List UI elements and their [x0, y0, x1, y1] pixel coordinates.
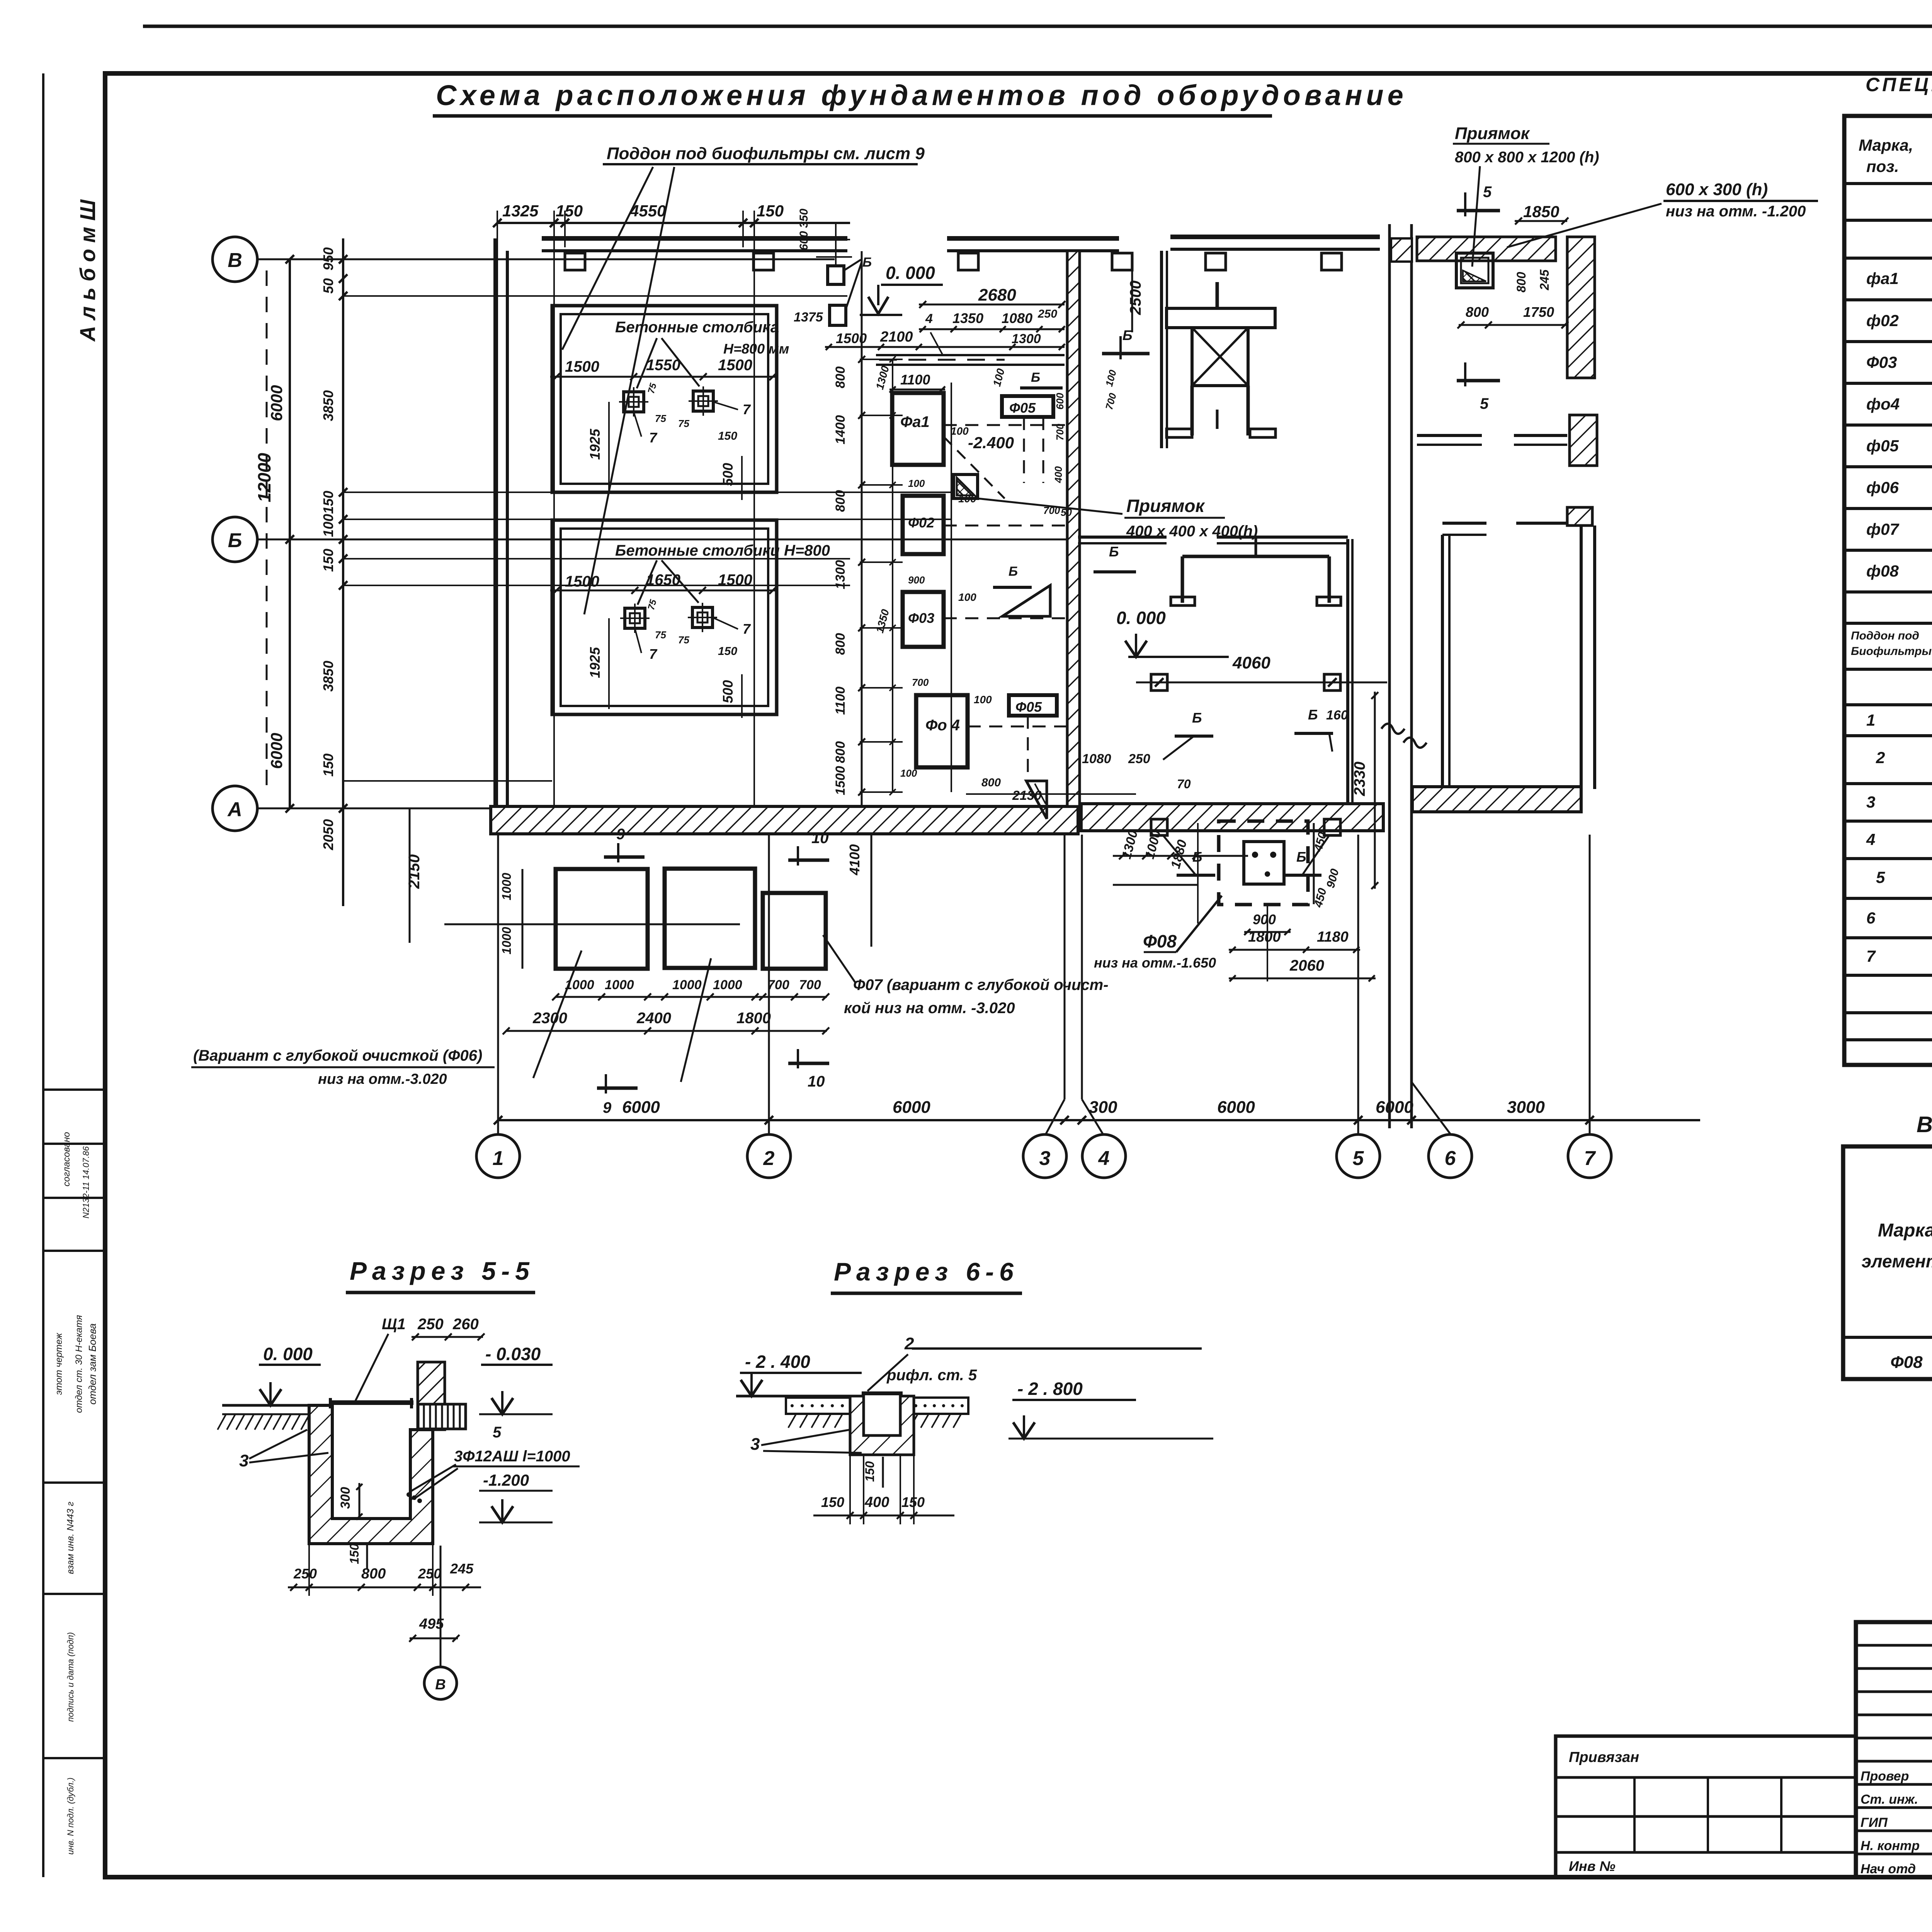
- svg-text:100: 100: [958, 591, 976, 603]
- svg-text:1180: 1180: [1317, 929, 1349, 945]
- svg-text:2300: 2300: [532, 1010, 567, 1027]
- svg-text:Бетонные столбика: Бетонные столбика: [615, 319, 779, 336]
- svg-text:75: 75: [678, 634, 689, 646]
- svg-text:(Вариант с глубокой очисткой (: (Вариант с глубокой очисткой (Ф06): [193, 1047, 482, 1064]
- svg-text:1400: 1400: [833, 415, 848, 444]
- svg-text:0: 0: [309, 1566, 317, 1582]
- svg-text:1925: 1925: [587, 647, 603, 678]
- svg-text:1: 1: [493, 1147, 504, 1170]
- svg-text:В: В: [228, 249, 242, 272]
- svg-text:Б: Б: [1122, 327, 1133, 343]
- svg-text:1: 1: [1866, 711, 1875, 729]
- svg-text:ф02: ф02: [1866, 311, 1899, 330]
- svg-text:В: В: [435, 1677, 446, 1693]
- svg-text:1500: 1500: [565, 358, 599, 375]
- svg-text:10: 10: [811, 830, 829, 847]
- svg-text:Бетонные столбики Н=800: Бетонные столбики Н=800: [615, 542, 830, 559]
- svg-text:3850: 3850: [320, 390, 336, 421]
- svg-text:2050: 2050: [320, 819, 336, 850]
- svg-text:1300: 1300: [833, 560, 848, 589]
- svg-text:Б: Б: [1031, 370, 1040, 385]
- svg-text:инв. N подл. (дубл.): инв. N подл. (дубл.): [66, 1777, 75, 1855]
- svg-text:3Ф12АШ l=1000: 3Ф12АШ l=1000: [454, 1448, 570, 1465]
- svg-text:Инв №: Инв №: [1569, 1858, 1616, 1874]
- svg-text:2: 2: [904, 1334, 914, 1353]
- svg-text:Ф03: Ф03: [1866, 353, 1897, 371]
- svg-text:3: 3: [239, 1451, 248, 1470]
- svg-text:1000: 1000: [500, 873, 514, 900]
- svg-text:5: 5: [1876, 868, 1885, 886]
- svg-text:75: 75: [678, 418, 689, 429]
- svg-text:1500: 1500: [718, 571, 752, 588]
- svg-text:Ведомость расхода стали на: Ведомость расхода стали на элемент.: [1917, 1112, 1932, 1137]
- svg-text:Привязан: Привязан: [1569, 1749, 1639, 1765]
- svg-text:Схема расположения фундамент: Схема расположения фундаментов под обору…: [436, 79, 1407, 111]
- svg-text:150: 150: [821, 1494, 844, 1510]
- svg-text:1800: 1800: [1248, 929, 1281, 945]
- svg-text:Ст. инж.: Ст. инж.: [1861, 1792, 1918, 1807]
- svg-text:7: 7: [1584, 1147, 1596, 1170]
- svg-text:1750: 1750: [1523, 304, 1554, 320]
- svg-text:6000: 6000: [267, 385, 286, 421]
- svg-text:9: 9: [616, 826, 625, 843]
- svg-text:отдел зам Боева: отдел зам Боева: [87, 1323, 98, 1405]
- svg-text:1650: 1650: [646, 571, 680, 588]
- svg-text:6000: 6000: [622, 1098, 660, 1117]
- svg-text:Фо 4: Фо 4: [925, 717, 960, 734]
- svg-text:1000: 1000: [713, 978, 742, 992]
- svg-text:260: 260: [452, 1316, 479, 1333]
- svg-text:150: 150: [320, 549, 336, 572]
- svg-text:950: 950: [320, 247, 336, 270]
- svg-text:элемента: элемента: [1862, 1251, 1932, 1271]
- svg-text:Нач отд: Нач отд: [1861, 1862, 1916, 1876]
- svg-text:150: 150: [718, 430, 737, 442]
- svg-text:600 х 300 (h): 600 х 300 (h): [1666, 180, 1768, 199]
- svg-text:100: 100: [908, 478, 925, 489]
- svg-text:1100: 1100: [900, 372, 930, 388]
- svg-text:7: 7: [743, 621, 751, 637]
- svg-text:3: 3: [750, 1435, 760, 1454]
- svg-text:800: 800: [361, 1566, 386, 1582]
- svg-text:150: 150: [757, 202, 784, 220]
- svg-text:1000: 1000: [500, 927, 514, 954]
- svg-text:6000: 6000: [1376, 1098, 1413, 1117]
- svg-text:фо4: фо4: [1866, 395, 1900, 413]
- svg-text:7: 7: [649, 430, 658, 446]
- svg-text:4: 4: [1098, 1147, 1110, 1170]
- svg-text:Ф02: Ф02: [908, 515, 934, 531]
- svg-text:500: 500: [720, 463, 736, 486]
- svg-text:400: 400: [1053, 466, 1064, 483]
- svg-text:25: 25: [293, 1566, 310, 1582]
- svg-text:4: 4: [1866, 830, 1875, 849]
- svg-text:250: 250: [1037, 308, 1057, 320]
- svg-text:фа1: фа1: [1866, 269, 1899, 287]
- svg-text:3850: 3850: [320, 661, 336, 692]
- svg-text:Б: Б: [862, 255, 872, 270]
- svg-text:2100: 2100: [880, 329, 913, 345]
- svg-text:100: 100: [900, 767, 917, 779]
- svg-text:1500: 1500: [565, 573, 599, 590]
- svg-text:2680: 2680: [978, 286, 1016, 304]
- svg-text:Ф08: Ф08: [1890, 1353, 1923, 1372]
- svg-text:800: 800: [833, 366, 848, 388]
- svg-text:Марка: Марка: [1878, 1220, 1932, 1241]
- svg-text:50: 50: [320, 278, 336, 294]
- svg-text:Провер: Провер: [1861, 1769, 1909, 1784]
- svg-text:низ на отм.-1.650: низ на отм.-1.650: [1094, 955, 1216, 971]
- svg-text:6: 6: [1866, 909, 1876, 927]
- svg-text:9: 9: [603, 1099, 612, 1116]
- svg-text:-1.200: -1.200: [483, 1471, 529, 1489]
- svg-text:1800: 1800: [736, 1010, 771, 1027]
- svg-text:6000: 6000: [1217, 1098, 1255, 1117]
- svg-text:1080: 1080: [1002, 310, 1032, 326]
- svg-text:Биофильтры: Биофильтры: [1851, 645, 1932, 658]
- svg-text:низ на отм.-3.020: низ на отм.-3.020: [318, 1071, 447, 1087]
- svg-text:3: 3: [1039, 1147, 1051, 1170]
- svg-text:700: 700: [799, 978, 821, 992]
- svg-text:500: 500: [720, 680, 736, 703]
- svg-text:0. 000: 0. 000: [1116, 608, 1166, 628]
- svg-text:245: 245: [450, 1561, 474, 1577]
- svg-text:поз.: поз.: [1866, 157, 1899, 175]
- svg-text:этот чертеж: этот чертеж: [54, 1332, 64, 1395]
- svg-text:3000: 3000: [1507, 1098, 1545, 1117]
- svg-text:подпись и дата (подп): подпись и дата (подп): [66, 1632, 75, 1722]
- svg-text:5: 5: [1483, 184, 1492, 201]
- svg-text:2330: 2330: [1351, 762, 1368, 796]
- svg-text:250: 250: [417, 1316, 444, 1333]
- svg-text:6: 6: [1445, 1147, 1456, 1170]
- svg-text:5: 5: [1480, 395, 1489, 412]
- svg-text:ф07: ф07: [1866, 520, 1900, 538]
- svg-text:700: 700: [912, 677, 929, 688]
- svg-text:350: 350: [798, 209, 810, 228]
- svg-text:Б: Б: [228, 529, 242, 552]
- svg-text:12000: 12000: [254, 453, 274, 502]
- svg-text:160: 160: [1326, 708, 1348, 723]
- svg-text:1000: 1000: [672, 978, 702, 992]
- svg-text:400: 400: [864, 1494, 889, 1510]
- svg-text:4060: 4060: [1232, 653, 1270, 672]
- svg-text:2500: 2500: [1127, 281, 1144, 315]
- svg-text:75: 75: [655, 413, 666, 424]
- svg-text:Разрез 6-6: Разрез 6-6: [834, 1257, 1019, 1286]
- svg-text:ф08: ф08: [1866, 562, 1899, 580]
- svg-text:1500: 1500: [833, 766, 848, 795]
- svg-text:- 2 . 800: - 2 . 800: [1017, 1379, 1083, 1399]
- svg-text:- 0.030: - 0.030: [485, 1344, 541, 1364]
- svg-text:Ф05: Ф05: [1015, 699, 1042, 715]
- svg-text:Марка,: Марка,: [1859, 136, 1913, 154]
- svg-text:Ф05: Ф05: [1009, 400, 1036, 416]
- svg-text:800: 800: [833, 633, 848, 655]
- svg-text:-2.400: -2.400: [968, 434, 1014, 452]
- svg-text:2400: 2400: [636, 1010, 671, 1027]
- svg-text:ГИП: ГИП: [1861, 1815, 1888, 1830]
- svg-text:100: 100: [951, 425, 969, 437]
- svg-text:70: 70: [1177, 777, 1191, 791]
- svg-text:Н. контр: Н. контр: [1861, 1838, 1920, 1853]
- svg-text:7: 7: [1866, 947, 1876, 965]
- svg-text:7: 7: [743, 401, 751, 417]
- svg-text:согласовано: согласовано: [61, 1132, 72, 1186]
- svg-text:900: 900: [1253, 912, 1276, 927]
- svg-text:отдел ст. 30 Н-екатя: отдел ст. 30 Н-екатя: [74, 1315, 84, 1413]
- svg-text:ф05: ф05: [1866, 437, 1899, 455]
- svg-text:100: 100: [320, 514, 336, 537]
- svg-text:Б: Б: [1009, 564, 1018, 579]
- svg-text:СПЕЦИФИКАЦИЯ К СХЕМЕ РАСПОЛ: СПЕЦИФИКАЦИЯ К СХЕМЕ РАСПОЛОЖЕНИЯ ФУНДАМ…: [1866, 74, 1932, 95]
- svg-text:900: 900: [908, 574, 925, 586]
- svg-text:ф06: ф06: [1866, 478, 1899, 497]
- svg-text:Б: Б: [1308, 707, 1318, 723]
- svg-text:1850: 1850: [1523, 202, 1559, 221]
- svg-text:0. 000: 0. 000: [263, 1344, 313, 1364]
- svg-text:150: 150: [347, 1543, 361, 1564]
- svg-text:1350: 1350: [952, 310, 983, 326]
- svg-text:0. 000: 0. 000: [886, 263, 935, 283]
- svg-text:800: 800: [1466, 304, 1489, 320]
- svg-text:1000: 1000: [565, 978, 594, 992]
- svg-text:400 х 400 х 400(h): 400 х 400 х 400(h): [1126, 523, 1258, 540]
- svg-text:Б: Б: [1192, 710, 1202, 726]
- svg-text:1325: 1325: [502, 202, 539, 220]
- svg-text:Приямок: Приямок: [1455, 124, 1531, 143]
- svg-text:Разрез 5-5: Разрез 5-5: [350, 1257, 535, 1285]
- svg-text:6000: 6000: [893, 1098, 930, 1117]
- svg-text:700: 700: [1054, 423, 1066, 440]
- svg-text:А: А: [227, 798, 242, 821]
- svg-text:2: 2: [763, 1147, 775, 1170]
- svg-text:250: 250: [418, 1566, 441, 1582]
- svg-text:А л ь б о м Ш: А л ь б о м Ш: [75, 199, 100, 342]
- svg-text:Н=800 мм: Н=800 мм: [723, 341, 789, 357]
- svg-text:800: 800: [833, 741, 848, 763]
- svg-text:1300: 1300: [1012, 332, 1041, 346]
- svg-text:100: 100: [974, 694, 992, 706]
- svg-text:5: 5: [493, 1424, 502, 1441]
- svg-text:1080: 1080: [1082, 752, 1111, 766]
- svg-text:4100: 4100: [847, 844, 862, 876]
- svg-text:2: 2: [1876, 748, 1885, 767]
- svg-text:300: 300: [338, 1487, 353, 1509]
- svg-text:800: 800: [1514, 272, 1528, 293]
- svg-text:600: 600: [798, 231, 810, 250]
- svg-text:1375: 1375: [794, 310, 823, 325]
- svg-text:75: 75: [655, 629, 666, 641]
- svg-text:150: 150: [718, 645, 737, 658]
- svg-text:3: 3: [1866, 793, 1875, 811]
- svg-text:300: 300: [1089, 1098, 1117, 1117]
- svg-text:Поддон под биофильтры см. лист: Поддон под биофильтры см. лист 9: [607, 144, 925, 163]
- svg-text:N2132-11 14.07.86: N2132-11 14.07.86: [81, 1146, 91, 1219]
- svg-text:2150: 2150: [406, 854, 423, 889]
- svg-text:кой низ на отм. -3.020: кой низ на отм. -3.020: [844, 1000, 1015, 1017]
- svg-text:1100: 1100: [833, 687, 848, 715]
- svg-text:Ф07 (вариант с глубокой очист-: Ф07 (вариант с глубокой очист-: [853, 976, 1109, 993]
- svg-text:Б: Б: [1109, 544, 1119, 560]
- svg-text:рифл. ст. 5: рифл. ст. 5: [886, 1367, 977, 1384]
- svg-text:низ на отм. -1.200: низ на отм. -1.200: [1666, 203, 1806, 220]
- svg-text:150: 150: [320, 491, 336, 514]
- svg-text:1550: 1550: [646, 357, 680, 374]
- svg-text:150: 150: [556, 202, 583, 220]
- svg-text:Щ1: Щ1: [382, 1316, 406, 1333]
- svg-text:взам инв. N443 г: взам инв. N443 г: [65, 1502, 76, 1574]
- svg-text:800: 800: [833, 490, 848, 512]
- svg-text:250: 250: [1128, 752, 1150, 766]
- svg-text:150: 150: [863, 1461, 877, 1482]
- svg-text:600: 600: [1054, 393, 1066, 410]
- svg-text:4: 4: [925, 311, 933, 326]
- svg-text:Ф03: Ф03: [908, 610, 934, 626]
- svg-text:- 2 . 400: - 2 . 400: [745, 1352, 810, 1372]
- svg-text:1000: 1000: [605, 978, 634, 992]
- svg-text:2060: 2060: [1289, 957, 1324, 974]
- svg-text:7: 7: [649, 646, 658, 662]
- svg-text:800 х 800 х 1200 (h): 800 х 800 х 1200 (h): [1455, 149, 1599, 166]
- svg-text:1500: 1500: [718, 357, 752, 374]
- svg-text:700: 700: [767, 978, 789, 992]
- svg-text:6000: 6000: [267, 733, 286, 769]
- svg-text:1925: 1925: [587, 429, 603, 460]
- svg-text:245: 245: [1537, 269, 1551, 291]
- svg-text:Б: Б: [1296, 849, 1306, 865]
- svg-text:Поддон под: Поддон под: [1851, 629, 1919, 642]
- svg-text:150: 150: [320, 753, 336, 777]
- svg-text:10: 10: [808, 1073, 825, 1090]
- svg-text:Ф08: Ф08: [1143, 931, 1177, 951]
- svg-text:Фа1: Фа1: [900, 413, 930, 430]
- svg-text:5: 5: [1353, 1147, 1364, 1170]
- svg-text:Приямок: Приямок: [1126, 496, 1205, 516]
- svg-text:800: 800: [981, 776, 1001, 789]
